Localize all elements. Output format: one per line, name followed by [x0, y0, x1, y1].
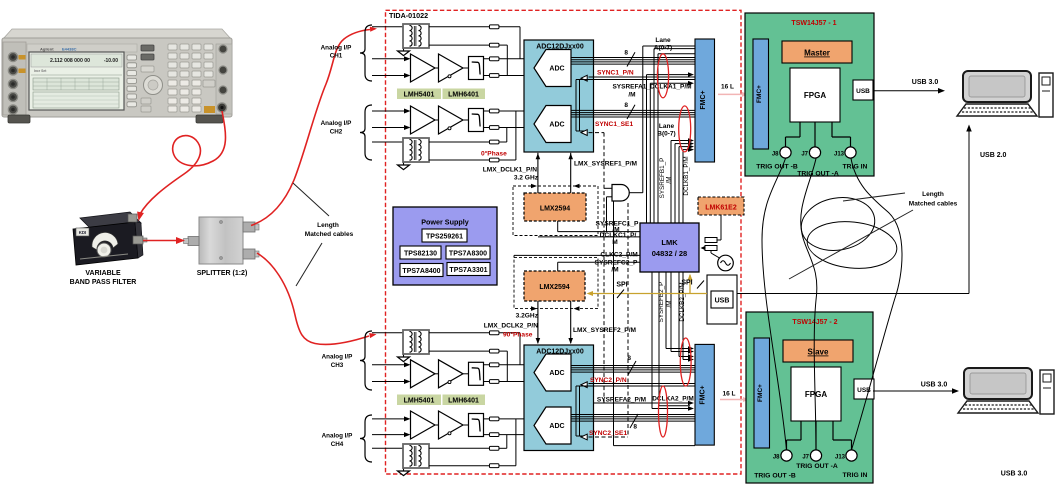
svg-text:FPGA: FPGA — [805, 390, 827, 399]
svg-text:J8: J8 — [773, 455, 780, 461]
svg-text:LMK61E2: LMK61E2 — [705, 205, 737, 212]
amplifier LMH5401 CH2 — [411, 106, 436, 134]
svg-text:TPS7A8300: TPS7A8300 — [449, 251, 487, 258]
Lane B bus (8) wires — [571, 109, 695, 111]
svg-text:LMX_SYSREF1_P/M: LMX_SYSREF1_P/M — [574, 161, 638, 168]
svg-text:J8: J8 — [772, 152, 779, 158]
svg-text:TIDA-01022: TIDA-01022 — [389, 11, 428, 20]
svg-text:LMH6401: LMH6401 — [448, 92, 479, 99]
DCLKC1_P/M wire — [538, 236, 640, 238]
SYSREFB1/DCLKB1 wires to FMC — [671, 140, 690, 142]
svg-text:SYSREFA2_P/M: SYSREFA2_P/M — [597, 397, 646, 404]
bus width slash 8 (Lane B2) — [630, 414, 638, 428]
trigger jack J7 (board 1) — [809, 147, 820, 158]
Master mode box — [782, 41, 852, 63]
svg-text:Matched cables: Matched cables — [305, 231, 354, 238]
CH3 input brace — [360, 331, 372, 390]
svg-text:SYSREFA1_DCLKA1_P/M: SYSREFA1_DCLKA1_P/M — [612, 84, 691, 91]
svg-text:E4438C: E4438C — [62, 47, 77, 52]
CH1 input wires — [372, 26, 403, 28]
svg-text:TRIG OUT -B: TRIG OUT -B — [756, 164, 798, 171]
FMC+ connector (board 1) — [753, 39, 769, 149]
svg-text:16 L: 16 L — [721, 84, 734, 91]
LMX2594 clock wires to ADC2 — [537, 301, 539, 343]
CH1 balun output wires + resistors — [429, 26, 490, 28]
CH1 balun transformer — [403, 24, 429, 48]
trigger jack J13 (board 1) — [845, 147, 856, 158]
svg-text:SYSREFC2_P: SYSREFC2_P — [595, 260, 638, 267]
USB connector (board 2) — [854, 379, 874, 399]
svg-text:90°Phase: 90°Phase — [503, 331, 533, 339]
svg-text:8: 8 — [633, 424, 637, 431]
svg-text:USB 3.0: USB 3.0 — [921, 382, 948, 389]
capture card TSW14J57 - 1 — [745, 13, 874, 176]
regulator TPS259261 — [422, 229, 467, 242]
LMH6401 label (top) — [443, 89, 486, 100]
svg-text:Power Supply: Power Supply — [421, 218, 469, 227]
svg-text:J13: J13 — [834, 152, 845, 158]
svg-text:LMX_SYSREF2_P/M: LMX_SYSREF2_P/M — [573, 327, 637, 334]
ADC1 internal SYNC wires — [575, 80, 577, 132]
svg-text:Slave: Slave — [808, 348, 829, 357]
LMH5401 label (bottom) — [397, 395, 441, 406]
bus width slash 8 (Lane A2) — [628, 361, 636, 375]
length matched cables pointer lines (right) — [843, 193, 905, 201]
svg-text:LMH5401: LMH5401 — [404, 92, 435, 99]
USB connector (board 1) — [853, 80, 873, 100]
svg-text:Length: Length — [317, 222, 339, 229]
variable band pass filter (photo) — [73, 212, 147, 265]
svg-text:TPS7A8400: TPS7A8400 — [402, 268, 440, 275]
CH1 output wires + termination resistors — [484, 58, 525, 60]
svg-text:Analog I/P: Analog I/P — [321, 45, 352, 52]
SYSREFB2/DCLKB2 wires to FMC2 — [666, 348, 690, 350]
regulator TPS7A3301 — [447, 263, 490, 276]
TIDA-01022 board outline (red dashed) — [386, 10, 742, 474]
CH4 anti-alias filter — [463, 424, 469, 426]
CH3 anti-alias filter — [463, 373, 469, 375]
svg-text:B(0-7): B(0-7) — [657, 131, 675, 138]
FPGA to trigger jack wires (board 2) — [800, 421, 802, 440]
SYSREFC1_P/M wire (LMX1 to LMK) — [557, 221, 559, 232]
amplifier LMH6401 CH1 — [435, 67, 439, 69]
svg-text:SPI: SPI — [681, 280, 692, 287]
svg-text:Lane: Lane — [659, 123, 675, 130]
svg-text:LMX_DCLK2_P/N: LMX_DCLK2_P/N — [484, 323, 538, 330]
red cable: splitter to CH1 — [251, 30, 370, 226]
svg-text:VARIABLE: VARIABLE — [85, 270, 121, 277]
trigger jack J8 (board 1) — [780, 147, 791, 158]
svg-text:M: M — [612, 239, 618, 246]
trigger cable J8-1 to J8-2 — [762, 159, 787, 450]
svg-text:LMX2594: LMX2594 — [539, 284, 569, 291]
signal generator (Agilent E4438C photo) — [2, 29, 232, 123]
trigger jack J8 (board 2) — [781, 450, 792, 461]
CH1 anti-alias filter — [463, 67, 469, 69]
svg-text:SPI: SPI — [616, 282, 627, 289]
svg-text:LMH5401: LMH5401 — [404, 398, 435, 405]
svg-text:J7: J7 — [801, 152, 808, 158]
svg-text:Agilent: Agilent — [40, 47, 54, 52]
ADC U2 ADC12DJxx00 (bottom) — [524, 345, 594, 451]
CH1 balun ground — [403, 49, 405, 51]
svg-text:BAND PASS FILTER: BAND PASS FILTER — [70, 279, 137, 286]
svg-text:CH4: CH4 — [331, 441, 344, 448]
SYSREFA2_P/M wire — [593, 402, 690, 404]
svg-text:04832 / 28: 04832 / 28 — [652, 249, 687, 258]
trigger jack J13 (board 2) — [846, 450, 857, 461]
svg-text:KDI: KDI — [79, 230, 87, 235]
svg-text:3.2GHz: 3.2GHz — [516, 313, 539, 320]
CH4 balun ground — [403, 469, 405, 471]
svg-text:ADC: ADC — [549, 66, 564, 73]
16 L link (top) — [718, 93, 744, 95]
length matched cables label (left) — [293, 183, 329, 216]
FPGA to trigger jack wires (board 1) — [799, 122, 801, 137]
CH3 input wires — [372, 332, 403, 334]
oscillator LMK61E2 — [698, 197, 744, 215]
CH2 input wires — [372, 141, 403, 143]
svg-text:FMC+: FMC+ — [700, 385, 707, 404]
svg-text:/M: /M — [611, 267, 619, 274]
svg-text:16 L: 16 L — [722, 391, 735, 398]
CH4 balun to ADC junction wires — [506, 435, 508, 449]
bus width slash 8 (Lane B) — [627, 105, 635, 119]
trigger cable J7-1 to J7-2 — [801, 159, 817, 450]
USB 2.0 wire to PC — [737, 293, 969, 295]
USB interface box — [707, 275, 737, 324]
power supply block — [393, 207, 497, 285]
svg-text:SYNC2_SE1: SYNC2_SE1 — [589, 430, 627, 437]
CH4 balun transformer — [403, 444, 429, 468]
host PC 1 — [957, 71, 1053, 117]
PLL U4 LMX2594 (bottom) — [524, 271, 585, 301]
CH4 balun output wires + resistors — [429, 447, 490, 449]
LMK61E2 to clock-mux wire — [720, 215, 722, 240]
red cable-pair ellipse (Lane A) — [657, 54, 668, 98]
amplifier LMH5401 CH4 — [411, 411, 436, 439]
CH2 anti-alias filter — [463, 119, 469, 121]
amplifier LMH6401 CH3 — [435, 373, 439, 375]
svg-text:TPS7A3301: TPS7A3301 — [449, 267, 487, 274]
reference oscillator symbol — [718, 255, 734, 271]
amplifier LMH6401 CH4 — [435, 424, 439, 426]
svg-text:Master: Master — [804, 49, 830, 58]
capture card TSW14J57 - 2 — [746, 312, 873, 483]
svg-text:/M: /M — [666, 301, 673, 308]
vertical clock-distribution wires (LMK to FMC2) — [651, 272, 653, 409]
svg-text:/M: /M — [666, 177, 673, 184]
splitter (1:2) photo — [184, 217, 260, 264]
CH2 balun output wires + resistors — [429, 141, 490, 143]
SYNC1_SE1 dashed wire — [589, 132, 605, 134]
ADC U1 ADC12DJxx00 (top) — [524, 40, 594, 152]
SYNC2_P/N wires — [589, 383, 696, 385]
svg-text:Analog I/P: Analog I/P — [322, 433, 353, 440]
regulator TPS7A8300 — [446, 246, 490, 259]
red arrow: filter to splitter — [143, 240, 180, 242]
Lane B2 bus wires — [571, 414, 695, 416]
ADC2 internal SYNC wires — [575, 386, 577, 436]
regulator TPS7A8400 — [400, 264, 443, 277]
svg-text:CLKC2_P/M: CLKC2_P/M — [600, 252, 638, 259]
LMX2594 clock wires to ADC1 — [537, 153, 539, 194]
svg-text:SYNC2_P/N: SYNC2_P/N — [590, 377, 627, 384]
gated SYSREF wire to FMC2 — [613, 201, 615, 446]
cable coil loop A — [797, 192, 879, 256]
USB 3.0 wire board1 to PC1 — [874, 90, 941, 92]
SPI bus wire (yellow) — [589, 293, 707, 295]
svg-text:ADC: ADC — [549, 370, 564, 377]
svg-text:-10.00: -10.00 — [104, 58, 118, 64]
CH1 balun to ADC junction wires — [519, 27, 521, 59]
SYSREFA1_DCLKA1_P/M wires — [647, 74, 691, 76]
svg-text:LMH6401: LMH6401 — [448, 398, 479, 405]
svg-text:TRIG OUT -A: TRIG OUT -A — [796, 463, 838, 470]
USB 3.0 wire board2 to PC2 — [873, 390, 955, 392]
svg-text:TPS259261: TPS259261 — [426, 234, 463, 241]
svg-text:FMC+: FMC+ — [700, 90, 707, 109]
Slave mode box — [783, 340, 853, 362]
regulator TPS82130 — [400, 246, 441, 259]
CH4 input brace — [360, 415, 372, 462]
clock input select network — [717, 239, 721, 241]
svg-text:SYNC1_P/N: SYNC1_P/N — [597, 70, 634, 77]
AND gate (SYSREF gating) — [612, 185, 629, 202]
16 L link (bottom) — [720, 399, 745, 401]
SYSREFC2_P/M wire (LMX2 to LMK) — [557, 262, 559, 271]
svg-text:TRIG IN: TRIG IN — [843, 164, 868, 171]
svg-text:J13: J13 — [835, 455, 846, 461]
dashed sync box around LMX2594 (top) — [513, 186, 598, 236]
svg-text:TSW14J57 - 1: TSW14J57 - 1 — [791, 20, 836, 27]
SYNC_SE vertical dashed wire — [603, 133, 605, 403]
svg-text:FMC+: FMC+ — [756, 85, 763, 103]
FMC+ connector (board 2) — [754, 338, 770, 448]
svg-text:/M: /M — [628, 92, 635, 99]
CH3 output wires + termination resistors — [484, 364, 525, 366]
AND gate input wires — [604, 187, 612, 189]
svg-text:3.2 GHz: 3.2 GHz — [514, 175, 539, 182]
svg-text:TPS82130: TPS82130 — [404, 251, 437, 258]
Lane A bus (8) wires — [571, 57, 695, 59]
CH3 balun to ADC junction wires — [519, 333, 521, 365]
svg-text:TRIG OUT -A: TRIG OUT -A — [797, 171, 839, 178]
svg-text:Analog I/P: Analog I/P — [321, 120, 352, 127]
trigger cable J13-1 to TRIG IN-2 — [851, 159, 902, 450]
CH2 output wires + termination resistors — [484, 110, 525, 112]
CH2 input brace — [360, 105, 372, 160]
CH2 balun to ADC junction wires — [506, 128, 508, 143]
AND gate output wire to FMC — [630, 192, 643, 194]
svg-text:LMX_DCLK1_P/N: LMX_DCLK1_P/N — [483, 167, 537, 174]
cable coil loop B — [805, 217, 899, 272]
red cable: generator to filter (with loop) — [140, 111, 225, 214]
amplifier LMH5401 CH1 — [411, 54, 436, 82]
svg-text:FPGA: FPGA — [804, 91, 826, 100]
red cable-pair ellipse (Lane B2) — [659, 386, 668, 437]
bus width slash 8 (Lane A) — [627, 52, 635, 66]
svg-text:USB 2.0: USB 2.0 — [980, 152, 1007, 159]
svg-text:CH2: CH2 — [330, 129, 343, 136]
CH4 output wires + termination resistors — [484, 418, 525, 420]
FPGA (board 1) — [790, 68, 840, 122]
amplifier LMH5401 CH3 — [411, 360, 436, 388]
red cable: splitter to CH3 — [257, 253, 369, 344]
svg-text:LMX2594: LMX2594 — [540, 206, 570, 213]
CH4 input wires — [372, 447, 403, 449]
svg-text:Incr Set: Incr Set — [34, 69, 47, 73]
svg-text:8: 8 — [624, 50, 628, 57]
CH3 balun transformer — [403, 330, 429, 354]
svg-text:2.112 008 000 00: 2.112 008 000 00 — [50, 58, 90, 64]
CH1 input brace — [360, 25, 372, 81]
Lane A2 bus wires — [571, 365, 695, 367]
svg-text:SYSREFB2_P: SYSREFB2_P — [658, 282, 665, 323]
LMH6401 label (bottom) — [443, 395, 486, 406]
LMH5401 label (top) — [397, 89, 441, 100]
SYNC2_SE vertical dashed wire — [627, 203, 629, 437]
svg-text:CH1: CH1 — [330, 53, 343, 60]
svg-text:SYNC1_SE1: SYNC1_SE1 — [595, 121, 633, 128]
FPGA (board 2) — [791, 367, 841, 421]
svg-text:0°Phase: 0°Phase — [481, 150, 507, 158]
svg-text:TRIG OUT -B: TRIG OUT -B — [754, 473, 796, 480]
red cable-pair ellipse (FMC2 top) — [680, 338, 691, 386]
svg-text:USB 3.0: USB 3.0 — [912, 79, 939, 86]
FMC+ connector (top) — [695, 39, 715, 162]
svg-text:DCLKC1_P/: DCLKC1_P/ — [600, 232, 637, 239]
svg-text:SPLITTER (1:2): SPLITTER (1:2) — [197, 270, 248, 277]
svg-text:Length: Length — [922, 191, 944, 198]
svg-text:ADC: ADC — [549, 423, 564, 430]
vertical clock-distribution wires (LMK to FMC1) — [646, 75, 648, 223]
CH3 balun ground — [403, 355, 405, 357]
CH3 balun output wires + resistors — [429, 332, 490, 334]
PLL U3 LMX2594 (top) — [524, 193, 586, 221]
CH2 balun ground — [403, 163, 405, 165]
amplifier LMH6401 CH2 — [435, 119, 439, 121]
host PC 2 — [958, 368, 1054, 414]
svg-text:CH3: CH3 — [331, 362, 344, 369]
SPI slash marks — [617, 290, 624, 299]
red cable-pair ellipse (Lane B) — [679, 106, 691, 152]
svg-text:J7: J7 — [802, 455, 809, 461]
svg-text:DCLKB1_P/M: DCLKB1_P/M — [683, 156, 690, 195]
CH2 balun transformer — [403, 138, 429, 162]
svg-text:FMC+: FMC+ — [757, 384, 764, 402]
svg-text:Analog I/P: Analog I/P — [322, 354, 353, 361]
svg-text:8: 8 — [624, 102, 628, 109]
svg-text:USB 3.0: USB 3.0 — [1001, 471, 1028, 478]
svg-text:TRIG IN: TRIG IN — [843, 472, 868, 479]
svg-text:Matched cables: Matched cables — [909, 201, 958, 208]
SYNC1_P/N wires — [589, 76, 696, 78]
svg-text:USB: USB — [856, 88, 870, 95]
FMC+ connector (bottom) — [695, 344, 714, 445]
DCLKA2_P/M wire — [652, 408, 690, 410]
clock jitter cleaner U5 LMK04832/28 — [640, 223, 699, 272]
dashed sync box around LMX2594 (bottom) — [514, 258, 598, 309]
trigger jack J7 (board 2) — [810, 450, 821, 461]
svg-text:LMK: LMK — [661, 238, 678, 247]
CLKC2_P/M wire — [514, 254, 640, 256]
SYNC2_SE1 dashed wire — [589, 436, 629, 438]
svg-text:ADC: ADC — [549, 122, 564, 129]
svg-text:Lane: Lane — [655, 37, 671, 44]
svg-text:USB: USB — [715, 298, 730, 305]
svg-text:DCLKB2_P/M: DCLKB2_P/M — [679, 282, 686, 321]
